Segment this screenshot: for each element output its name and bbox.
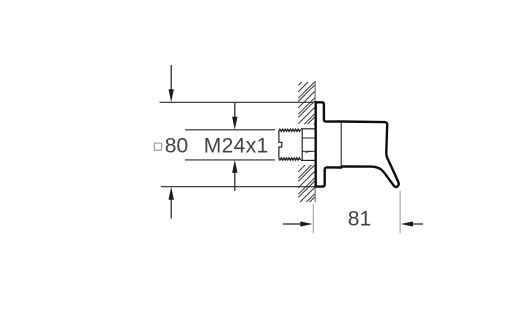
arrow down, square-80 top [169,65,174,102]
wall face line [314,81,316,202]
81 extension line right [399,191,401,234]
backnut hex flat line lower [302,150,315,152]
81 extension line left [312,204,314,234]
81 dimension left arrow [283,221,313,226]
M24 extension line bottom [185,159,275,161]
escutcheon and handle body outline [316,102,399,187]
wall hatch [298,82,314,202]
svg-text:80: 80 [165,134,188,157]
dimension extension line bottom of square 80 [161,186,315,188]
label square-80 : square symbol [154,143,161,150]
dimension extension line top of square 80 [160,101,315,103]
backnut chamfer tick [306,151,313,152]
arrow up, square-80 bottom [169,187,174,219]
arrow down, M24 top [232,103,237,130]
backnut left face [301,129,303,161]
M24 extension line top [185,129,275,131]
backnut hex flat line upper [302,137,315,139]
thread left edge with slot notch [279,131,282,159]
svg-text:81: 81 [348,207,371,230]
body joint line [340,122,342,166]
arrow up, M24 bottom [232,160,237,191]
backnut bottom edge [301,159,315,161]
thread bottom serration [279,158,301,160]
thread top serration [279,129,301,131]
81 dimension right arrow [401,221,423,226]
backnut top edge [301,128,315,130]
svg-text:M24x1: M24x1 [204,135,269,158]
